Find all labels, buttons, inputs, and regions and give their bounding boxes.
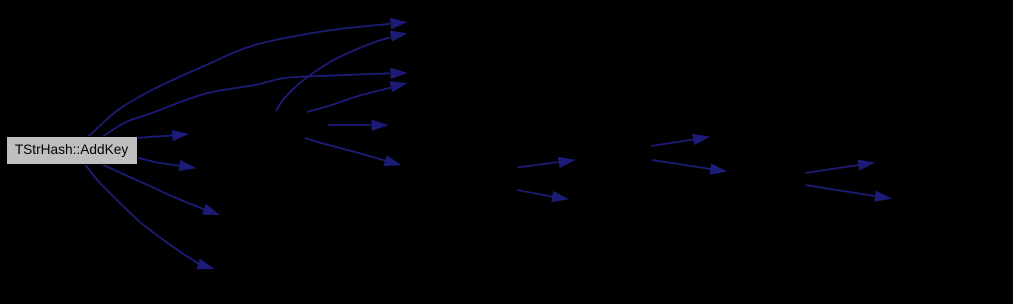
edge node1 -> nodeB (steep line) [276,31,406,111]
edge node7 -> nodeL [805,185,891,201]
edge TStrHash::AddKey -> nodeC (second curve) [102,68,406,137]
edge TStrHash::AddKey -> node4 (bottom curve) [84,163,213,269]
edge node1 -> nodeD [307,82,406,112]
edge TStrHash::AddKey -> nodeA (top curve) [88,19,406,138]
svg-text:TStrHash::AddKey: TStrHash::AddKey [15,142,129,157]
edge TStrHash::AddKey -> node2 [137,158,195,171]
edge node1 -> nodeE (horizontal) [328,120,387,130]
edge node5 -> nodeG [517,157,574,167]
edge node5 -> nodeH [517,190,568,202]
edge TStrHash::AddKey -> node1 [137,131,188,141]
node TStrHash::AddKey (root box) [7,137,138,165]
edge node7 -> nodeK [805,160,874,173]
edge TStrHash::AddKey -> node3 (lower arrow) [100,164,219,215]
edge node6 -> nodeI [651,134,709,146]
edge node6 -> nodeJ [652,160,726,174]
edge node1 -> nodeF [305,138,400,166]
